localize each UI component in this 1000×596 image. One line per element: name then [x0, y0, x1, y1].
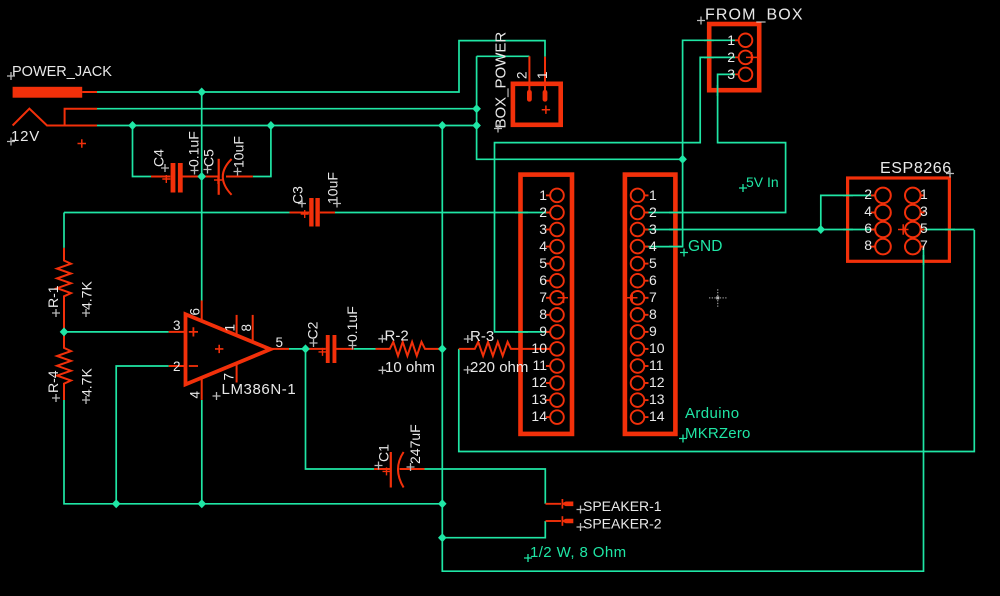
op-amp pin7 stub [236, 363, 238, 383]
svg-text:8: 8 [239, 324, 254, 332]
svg-text:12V: 12V [11, 128, 40, 145]
wire ESP pin5 stub run [921, 229, 975, 231]
svg-text:7: 7 [649, 289, 657, 305]
BOX_POWER box [513, 84, 561, 125]
junction mid wire at BOX_POWER vertical [472, 104, 481, 113]
svg-text:POWER_JACK: POWER_JACK [12, 64, 112, 80]
svg-text:LM386N-1: LM386N-1 [222, 381, 297, 398]
FROM_BOX pin stubs [735, 40, 739, 74]
wire over ESP border pin2 [843, 194, 853, 196]
wire junction to SPEAKER-2 stub [442, 521, 545, 538]
svg-text:9: 9 [539, 323, 547, 339]
op-amp plus input mark [189, 327, 198, 336]
ESP8266 left pin numbers [864, 186, 872, 253]
wire over left header border pin2 [515, 212, 528, 214]
op-amp pin4 lead [201, 378, 203, 400]
svg-text:C5: C5 [201, 149, 217, 167]
svg-text:SPEAKER-2: SPEAKER-2 [583, 516, 662, 532]
svg-text:4: 4 [539, 238, 547, 254]
editor crosshair cursor [709, 289, 727, 307]
svg-text:7: 7 [920, 237, 928, 253]
label MKRZero anchor cross [679, 435, 687, 443]
wire bottom run to ESP pin7 [442, 247, 923, 571]
SPEAKER-2 stub wire [546, 520, 562, 522]
svg-text:6: 6 [539, 272, 547, 288]
wire branch up to ESP pin2 [821, 195, 876, 229]
BOX_POWER pin1 pad [543, 90, 548, 102]
svg-text:3: 3 [920, 203, 928, 219]
left header origin cross [558, 293, 569, 304]
wire caps branch right from C5 up [253, 126, 271, 177]
junction gnd rail at BOX_POWER vertical [472, 121, 481, 130]
svg-text:BOX_POWER: BOX_POWER [493, 32, 510, 129]
wire output junction down to C1 [306, 349, 375, 469]
wire over FROM_BOX border pin1 [704, 39, 714, 41]
junction FROM_BOX pin1 row [678, 155, 687, 164]
power jack J1 body [13, 87, 83, 98]
FROM_BOX box [709, 24, 759, 90]
op-amp pin6 lead [201, 301, 203, 323]
svg-text:R-3: R-3 [470, 328, 494, 345]
junction R-2 output [438, 344, 447, 353]
label LM386N-1 anchor cross [213, 392, 221, 400]
capacitor C3 origin cross [301, 210, 309, 218]
junction feedback bottom [112, 499, 121, 508]
svg-text:0.1uF: 0.1uF [344, 306, 360, 342]
svg-text:11: 11 [649, 357, 664, 373]
wire vertical BOX_POWER pin2 down to FROM_BOX row [477, 56, 683, 159]
left header pin numbers [531, 187, 547, 424]
capacitor C2 leads [309, 348, 354, 350]
capacitor C4 leads [151, 176, 202, 178]
svg-text:1: 1 [727, 32, 735, 48]
svg-text:FROM_BOX: FROM_BOX [705, 7, 804, 24]
capacitor C5 left lead [202, 176, 253, 178]
wire over left header border pin9 [515, 331, 528, 333]
wire net VIN top: power jack pin to BOX_POWER pin1 [97, 41, 545, 92]
wire C1 right to SPEAKER-1 stub [425, 469, 546, 504]
ESP8266 origin cross [898, 224, 909, 235]
wire BOX_POWER pin2 horizontal [477, 55, 530, 57]
svg-text:GND: GND [688, 238, 722, 255]
svg-text:3: 3 [649, 221, 657, 237]
svg-text:10: 10 [649, 340, 665, 356]
right header pins (circles+stubs) [631, 189, 649, 424]
svg-text:8: 8 [649, 306, 657, 322]
label 12V anchor cross [7, 138, 15, 146]
SPEAKER-1 anchor cross [577, 506, 585, 514]
power jack pin lead [82, 91, 97, 93]
svg-text:1/2 W, 8 Ohm: 1/2 W, 8 Ohm [530, 544, 627, 561]
svg-text:13: 13 [531, 391, 547, 407]
junction jack top wire [197, 88, 206, 97]
BOX_POWER pin2 lead [528, 56, 530, 92]
left header pins (circles+stubs) [546, 189, 564, 424]
wire over right header border pin4 [669, 246, 681, 248]
right header box [625, 175, 676, 434]
capacitor C5 straight plate [218, 159, 220, 195]
svg-text:6: 6 [188, 308, 203, 316]
wire node R1/R4 to op-amp pin3 [64, 331, 169, 333]
op-amp pin8 stub [252, 315, 254, 343]
wire FROM_BOX pin1 net to GND row [644, 159, 683, 246]
svg-text:MKRZero: MKRZero [685, 425, 751, 442]
svg-text:9: 9 [649, 323, 657, 339]
wire right header pin3 to ESP pin6 [644, 229, 875, 231]
svg-text:220 ohm: 220 ohm [470, 359, 528, 376]
svg-text:1: 1 [649, 187, 657, 203]
wire over ESP bottom border pin7 [923, 255, 925, 265]
wire over FROM_BOX bottom border pin3 [717, 85, 719, 96]
op-amp pin1 stub [236, 315, 238, 336]
left header box [521, 175, 573, 434]
wire over FROM_BOX border pin2 [704, 56, 714, 58]
junction gnd rail at C5 branch [267, 121, 276, 130]
label BOX_POWER anchor cross [494, 125, 502, 133]
capacitor C1 curved plate [398, 452, 404, 488]
svg-text:R-4: R-4 [45, 370, 61, 393]
wire FROM_BOX pin1 down [683, 40, 735, 159]
svg-text:6: 6 [864, 220, 872, 236]
svg-text:2: 2 [515, 71, 530, 79]
ESP8266 pins right column [905, 188, 925, 255]
label R-3 anchor cross [464, 335, 472, 343]
svg-text:10: 10 [531, 340, 547, 356]
capacitor C2 plates [326, 335, 330, 363]
svg-text:13: 13 [649, 391, 665, 407]
power jack origin cross [78, 139, 87, 148]
rotated label anchor crosses [82, 164, 415, 471]
label 10 ohm anchor cross [379, 366, 387, 374]
right header origin cross [627, 293, 638, 304]
svg-text:R-1: R-1 [45, 285, 61, 308]
wire down to R-1 top [63, 213, 65, 248]
wire net GND bottom rail from jack [97, 125, 477, 127]
capacitor C1 right lead [400, 468, 425, 470]
wire op-amp pin4 down [201, 400, 203, 504]
ESP8266 box [848, 178, 950, 261]
capacitor C4 origin cross [162, 175, 170, 183]
op-amp pin2 lead [169, 365, 186, 367]
svg-text:14: 14 [531, 408, 547, 424]
svg-text:4: 4 [188, 391, 203, 399]
svg-text:2: 2 [864, 186, 872, 202]
label ESP8266 anchor cross [946, 170, 954, 178]
op-amp pin5 lead [270, 348, 289, 350]
12V return symbol [13, 109, 97, 126]
BOX_POWER origin cross [542, 106, 550, 114]
label R-1 anchor cross [52, 309, 60, 317]
op-amp center origin cross [215, 345, 223, 353]
resistor R-3 body [459, 342, 551, 356]
wire op-amp pin2 feedback [116, 366, 169, 504]
svg-text:4: 4 [864, 203, 872, 219]
svg-text:1: 1 [920, 186, 928, 202]
FROM_BOX pin2 circle [739, 51, 753, 65]
svg-text:4.7K: 4.7K [79, 281, 95, 310]
wire over right header border pin2 [669, 212, 681, 214]
capacitor C1 left lead [374, 468, 391, 470]
svg-text:2: 2 [649, 204, 657, 220]
wire R-3 left loop to ESP pin5 [459, 230, 975, 452]
SPEAKER-2 arrow [561, 516, 563, 526]
svg-text:2: 2 [539, 204, 547, 220]
svg-text:12: 12 [649, 374, 665, 390]
svg-text:3: 3 [539, 221, 547, 237]
capacitor C2 origin cross [319, 348, 327, 356]
svg-text:247uF: 247uF [407, 424, 423, 464]
svg-text:5: 5 [649, 255, 657, 271]
svg-text:C1: C1 [376, 444, 392, 462]
svg-text:5: 5 [276, 335, 284, 350]
svg-text:5: 5 [539, 255, 547, 271]
wire C3 right to header pin 2 [335, 212, 551, 214]
resistor R-4 body [57, 332, 71, 400]
op-amp minus input mark [189, 365, 198, 367]
svg-text:7: 7 [222, 373, 237, 381]
op-amp U1 triangle [186, 314, 271, 384]
wire over ESP border pin6 [843, 229, 853, 231]
capacitor C5 origin cross [214, 176, 222, 184]
svg-text:0.1uF: 0.1uF [186, 131, 202, 167]
svg-text:C3: C3 [290, 186, 306, 204]
FROM_BOX pin1 circle [739, 34, 753, 48]
wire FROM_BOX pin3 to right header pin2 [644, 74, 786, 212]
junction caps row [197, 172, 206, 181]
FROM_BOX pin3 circle [739, 68, 753, 82]
ESP8266 right pin numbers [920, 186, 928, 253]
svg-text:5V In: 5V In [746, 174, 779, 190]
capacitor C3 leads [290, 212, 336, 214]
wire R-4 bottom down and bottom rail to speaker junctions [64, 400, 442, 504]
svg-text:1: 1 [539, 187, 547, 203]
junction ESP branch [817, 225, 826, 234]
resistor R-2 body [376, 342, 443, 356]
junction gnd rail at speaker vertical [438, 121, 447, 130]
svg-text:8: 8 [864, 237, 872, 253]
wire over ESP border pin5 [945, 229, 955, 231]
ESP8266 pins left column [871, 188, 891, 255]
svg-text:8: 8 [539, 306, 547, 322]
SPEAKER-1 stub wire [546, 503, 562, 505]
wire FROM_BOX pin2 to left header pin9 [495, 57, 736, 332]
svg-text:6: 6 [649, 272, 657, 288]
svg-text:3: 3 [173, 318, 181, 333]
svg-text:12: 12 [531, 374, 547, 390]
junction speaker-1 node [438, 499, 447, 508]
wire overlays crossing red borders [515, 40, 955, 332]
label R-4 anchor cross [52, 394, 60, 402]
svg-text:SPEAKER-1: SPEAKER-1 [583, 498, 662, 514]
op-amp pin3 lead [169, 331, 186, 333]
svg-text:10uF: 10uF [231, 136, 247, 168]
wire net 12V mid: jack to BOX_POWER pin2 junction [97, 108, 477, 110]
label 220 ohm anchor cross [464, 366, 472, 374]
SPEAKER-1 arrow [561, 499, 563, 509]
right header pin numbers [649, 187, 665, 424]
label FROM_BOX anchor cross [697, 17, 705, 25]
capacitor C1 straight plate [390, 452, 392, 488]
svg-text:5: 5 [920, 220, 928, 236]
junction gnd rail at C4 branch [128, 121, 137, 130]
svg-text:4.7K: 4.7K [79, 368, 95, 397]
svg-text:4: 4 [649, 238, 657, 254]
label POWER_JACK anchor cross [7, 72, 15, 80]
junction speaker-2 node [438, 533, 447, 542]
capacitor C5 curved plate [223, 159, 232, 195]
svg-text:14: 14 [649, 408, 665, 424]
svg-text:2: 2 [727, 49, 735, 65]
wire net C3 row to left header pin 2 [64, 212, 290, 214]
label R-2 anchor cross [378, 335, 386, 343]
svg-text:ESP8266: ESP8266 [880, 160, 952, 177]
resistor R-1 body [57, 248, 71, 332]
wire caps branch left down to C4 [133, 126, 152, 177]
BOX_POWER pin2 pad [527, 90, 532, 102]
svg-text:C4: C4 [151, 149, 167, 167]
wire long vertical speaker net [441, 126, 443, 538]
wire over right header border pin3 [669, 229, 681, 231]
BOX_POWER pin1 lead [544, 57, 546, 92]
svg-text:10uF: 10uF [325, 172, 341, 204]
wire left header pin2 entry [544, 212, 551, 214]
svg-text:1: 1 [223, 324, 238, 332]
svg-text:R-2: R-2 [385, 328, 409, 345]
FROM_BOX origin cross [746, 52, 757, 63]
svg-text:11: 11 [532, 357, 547, 373]
capacitor C1 origin cross [383, 467, 391, 475]
junction R1/R4 node [60, 327, 69, 336]
capacitor C3 plates [309, 198, 313, 227]
wire vertical supply to op-amp pin6 [201, 92, 203, 301]
svg-text:C2: C2 [305, 321, 321, 339]
svg-text:10 ohm: 10 ohm [385, 359, 435, 376]
SPEAKER-2 anchor cross [577, 523, 585, 531]
junction op-amp output [301, 344, 310, 353]
svg-text:2: 2 [173, 359, 181, 374]
svg-text:7: 7 [539, 289, 547, 305]
svg-text:3: 3 [727, 66, 735, 82]
svg-text:Arduino: Arduino [685, 405, 740, 422]
wire C2 to R-2 [354, 348, 376, 350]
svg-text:1: 1 [535, 71, 550, 79]
wire op-amp output to C2 [289, 348, 309, 350]
junction opamp pin4 bottom [198, 499, 207, 508]
capacitor C4 plates [171, 163, 176, 193]
